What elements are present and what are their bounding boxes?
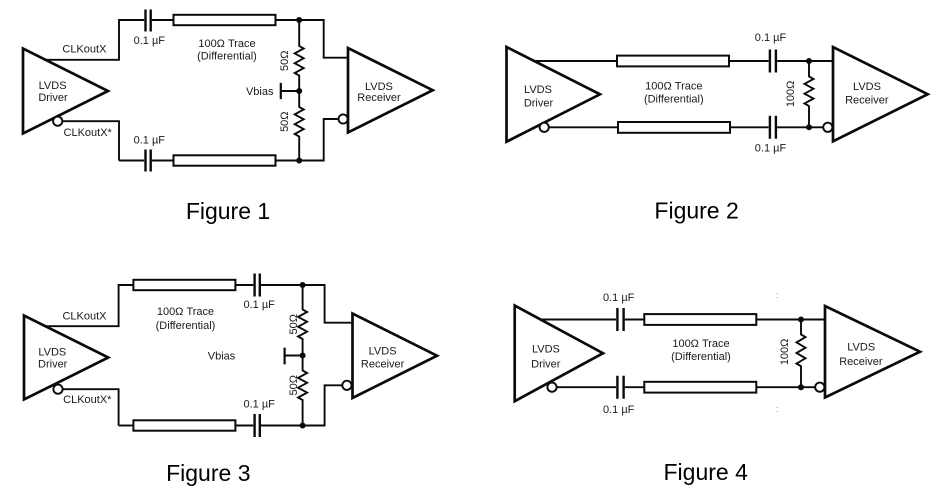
svg-text:CLKoutX*: CLKoutX* [63,394,112,406]
capacitor C5 0.1 uF (Fig3 top) [255,274,260,297]
capacitor C2 0.1 uF (Fig1 bottom) [146,150,151,172]
svg-text:Driver: Driver [38,359,68,371]
wire rail to trace (Fig3 bottom) [119,425,134,427]
capacitor C4 0.1 uF (Fig2 bottom) [770,116,776,139]
svg-text:100Ω: 100Ω [779,339,791,366]
Vbias bar (Fig3) [284,348,286,365]
svg-text:0.1 µF: 0.1 µF [603,404,635,416]
wire trace to receiver - (Fig1 bottom) [276,119,339,161]
resistor R5 50 ohm (Fig3 lower) [298,356,307,426]
wire C2 to trace (Fig1 bottom) [152,160,174,162]
junction node (Fig4 bottom) [798,384,804,390]
capacitor C1 0.1 uF (Fig1 top) [146,10,151,32]
svg-text:Receiver: Receiver [361,358,405,370]
power tap Vbias (Fig1) [281,90,299,92]
svg-text:50Ω: 50Ω [279,111,291,131]
svg-text:50Ω: 50Ω [288,375,300,395]
wire C1 to trace (Fig1 top) [152,19,174,21]
junction node (Fig2 top) [806,58,812,64]
svg-text:LVDS: LVDS [847,342,875,354]
wire CLKoutX* rail to C2 (Fig1 bottom) [119,160,144,162]
transmission line trace (Fig3 bottom) [133,420,235,430]
junction node Vbias (Fig3) [300,353,306,359]
svg-text:Receiver: Receiver [839,356,883,368]
capacitor C6 0.1 uF (Fig3 bottom) [255,414,260,437]
svg-text:50Ω: 50Ω [279,51,291,71]
inverting bubble driver (Fig4) [547,383,556,392]
resistor R4 50 ohm (Fig3 upper) [298,285,307,356]
svg-text:0.1 µF: 0.1 µF [134,135,166,147]
transmission line trace (Fig4 top) [644,314,756,325]
op-amp U3 LVDS Driver (Fig2) [507,47,601,142]
svg-text:Receiver: Receiver [845,94,889,106]
value label 100ohm Trace (Differential) (Fig3) [156,306,216,332]
svg-text:(Differential): (Differential) [197,51,257,63]
transmission line trace (Fig1 top) [174,15,276,25]
transmission line trace (Fig2 bottom) [618,122,730,133]
Vbias bar (Fig1) [280,83,282,99]
op-amp U5 LVDS Driver (Fig3) [24,316,108,400]
label LVDS Receiver (Fig2) [845,81,889,106]
svg-text:(Differential): (Differential) [671,351,731,363]
svg-text:100Ω Trace: 100Ω Trace [198,38,255,50]
svg-text:0.1 µF: 0.1 µF [243,299,275,311]
op-amp U8 LVDS Receiver (Fig4) [825,306,920,398]
svg-text:(Differential): (Differential) [644,94,704,106]
label LVDS Receiver (Fig3) [361,346,405,371]
inverting bubble receiver (Fig4) [815,383,824,392]
svg-text:Driver: Driver [38,92,68,104]
wire CLKoutX* from driver (Fig3) [63,389,119,425]
svg-text:LVDS: LVDS [853,81,881,93]
value label 100ohm Trace (Differential) (Fig4) [671,338,731,363]
svg-text:CLKoutX*: CLKoutX* [64,127,113,139]
junction node (Fig3 bottom) [300,423,306,429]
wire trace to C6 (Fig3 bottom) [235,425,253,427]
op-amp U4 LVDS Receiver (Fig2) [833,47,928,141]
wire CLKoutX* from driver (Fig1) [62,121,119,160]
junction node (Fig1 top) [296,17,302,23]
svg-text:LVDS: LVDS [524,84,552,96]
wire trace to receiver - (Fig4 bottom) [756,386,815,388]
label LVDS Receiver (Fig1) [357,81,401,104]
wire C5 to receiver + (Fig3 top) [261,285,353,323]
resistor R1 50 ohm (Fig1 upper) [295,20,304,91]
svg-text:CLKoutX: CLKoutX [62,310,107,322]
wire C8 to trace (Fig4 bottom) [625,386,645,388]
svg-text:Vbias: Vbias [208,350,236,362]
transmission line trace (Fig3 top) [133,280,235,290]
svg-text:Figure 1: Figure 1 [186,198,270,224]
svg-text:0.1 µF: 0.1 µF [603,292,635,304]
svg-text:0.1 µF: 0.1 µF [755,32,787,44]
junction node (Fig4 top) [798,317,804,323]
svg-text:0.1 µF: 0.1 µF [755,142,787,154]
transmission line trace (Fig4 bottom) [644,382,756,393]
inverting bubble driver (Fig1) [53,117,62,126]
wire trace to C5 (Fig3 top) [235,284,253,286]
junction node (Fig2 bottom) [806,124,812,130]
wire trace to receiver + (Fig1 top) [276,20,349,58]
wire driver + to trace (Fig2 top) [534,60,617,62]
junction node Vbias (Fig1) [296,88,302,94]
junction node (Fig1 bottom) [296,158,302,164]
wire C7 to trace (Fig4 top) [625,319,645,321]
inverting bubble receiver (Fig3) [342,381,351,390]
op-amp U6 LVDS Receiver (Fig3) [353,314,438,399]
svg-text:LVDS: LVDS [369,346,397,358]
svg-text:LVDS: LVDS [39,80,67,92]
label LVDS Driver (Fig2) [524,84,554,110]
svg-text:0.1 µF: 0.1 µF [134,35,166,47]
transmission line trace (Fig1 bottom) [174,155,276,165]
svg-text::: : [776,404,779,414]
svg-text:50Ω: 50Ω [288,314,300,334]
wire C6 to node (Fig3 bottom) [261,425,303,427]
wire driver - to trace (Fig2 bottom) [549,126,618,128]
svg-text:Vbias: Vbias [246,86,274,98]
svg-text:0.1 µF: 0.1 µF [243,398,275,410]
resistor R6 100 ohm (Fig4) [797,320,806,388]
label LVDS Driver (Fig3) [38,347,68,371]
svg-text:Receiver: Receiver [357,92,401,104]
inverting bubble driver (Fig3) [53,385,62,394]
wire driver - to C8 (Fig4 bottom) [557,386,617,388]
power tap Vbias (Fig3) [285,355,303,357]
svg-text:100Ω: 100Ω [785,81,797,108]
svg-text:Figure 2: Figure 2 [654,198,738,224]
capacitor C8 0.1 uF (Fig4 bottom) [617,376,623,399]
inverting bubble receiver (Fig2) [823,123,832,132]
svg-text:100Ω Trace: 100Ω Trace [157,306,214,318]
wire CLKoutX from driver to C1 (Fig1) [44,20,144,60]
wire driver + to C7 (Fig4 top) [540,319,616,321]
op-amp U1 LVDS Driver (Fig1) [23,49,108,134]
wire trace to receiver + (Fig4 top) [756,319,825,321]
value label 100ohm Trace (Differential) (Fig1) [197,38,257,63]
svg-text::: : [776,290,779,300]
op-amp U2 LVDS Receiver (Fig1) [348,48,433,133]
wire trace to C3 (Fig2 top) [729,60,769,62]
svg-text:100Ω Trace: 100Ω Trace [645,81,702,93]
junction node (Fig3 top) [300,282,306,288]
svg-text:Driver: Driver [524,98,554,110]
svg-text:LVDS: LVDS [532,344,560,356]
capacitor C3 0.1 uF (Fig2 top) [770,50,776,73]
wire CLKoutX from driver to trace (Fig3) [45,285,133,326]
label LVDS Driver (Fig4) [531,344,561,371]
label LVDS Driver (Fig1) [38,80,68,104]
transmission line trace (Fig2 top) [617,56,729,67]
svg-text:100Ω Trace: 100Ω Trace [672,338,729,350]
inverting bubble driver (Fig2) [540,123,549,132]
svg-text:(Differential): (Differential) [156,320,216,332]
wire C3 to receiver + (Fig2 top) [777,60,833,62]
wire node to receiver - (Fig3 bottom) [303,385,343,425]
inverting bubble receiver (Fig1) [339,114,348,123]
svg-text:Driver: Driver [531,358,561,370]
label LVDS Receiver (Fig4) [839,342,883,368]
value label 100ohm Trace (Differential) (Fig2) [644,81,704,106]
svg-text:Figure 3: Figure 3 [166,460,250,486]
svg-text:Figure 4: Figure 4 [664,459,749,485]
resistor R3 100 ohm (Fig2) [805,61,814,127]
op-amp U7 LVDS Driver (Fig4) [515,306,603,402]
capacitor C7 0.1 uF (Fig4 top) [617,308,623,331]
wire C4 to receiver - (Fig2 bottom) [777,126,823,128]
wire trace to C4 (Fig2 bottom) [730,126,769,128]
svg-text:LVDS: LVDS [38,347,66,359]
resistor R2 50 ohm (Fig1 lower) [295,91,304,161]
svg-text:CLKoutX: CLKoutX [62,43,107,55]
